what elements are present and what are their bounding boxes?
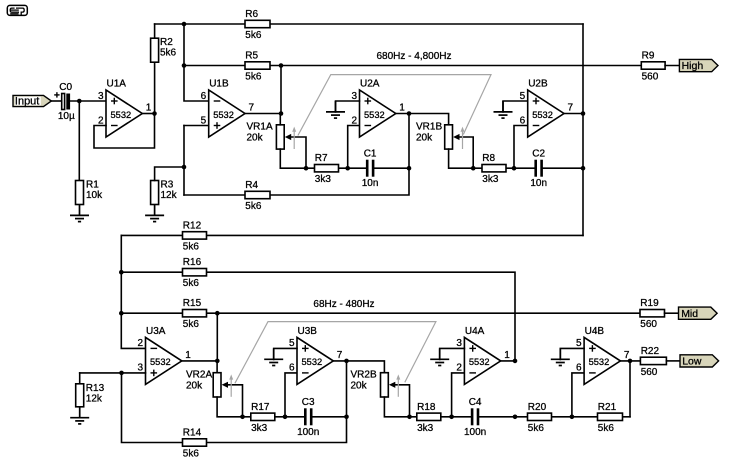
svg-text:R20: R20 bbox=[528, 402, 547, 413]
VR2A wiper arrow bbox=[222, 382, 243, 417]
junction R3 junction bbox=[182, 165, 187, 170]
svg-text:3k3: 3k3 bbox=[315, 174, 332, 185]
svg-text:R6: R6 bbox=[245, 9, 258, 20]
svg-text:C2: C2 bbox=[532, 149, 545, 160]
junction R7/C1/U2A pin2 junction bbox=[345, 166, 350, 171]
wire U1B output to VR1A bbox=[245, 113, 281, 115]
svg-text:5532: 5532 bbox=[469, 357, 490, 367]
resistor R9 560 bbox=[641, 51, 665, 83]
node Low (output tag) bbox=[680, 355, 719, 368]
svg-text:U1B: U1B bbox=[209, 79, 229, 90]
svg-text:C4: C4 bbox=[469, 397, 482, 408]
ground below R1 bbox=[70, 205, 89, 222]
svg-text:R2: R2 bbox=[160, 37, 173, 48]
wire U3B output to VR2B bbox=[333, 361, 384, 373]
svg-text:3: 3 bbox=[137, 363, 143, 374]
wire R2 top to HF feedback rail bbox=[154, 24, 156, 38]
potentiometer VR1B 20k bbox=[416, 122, 453, 150]
svg-text:5532: 5532 bbox=[589, 357, 610, 367]
wire U4A output bbox=[501, 360, 515, 362]
svg-text:6: 6 bbox=[201, 91, 207, 102]
svg-text:5532: 5532 bbox=[364, 110, 385, 120]
wire C2 right to U2B output vertical bbox=[543, 167, 583, 169]
junction R18/C4/U4A pin2 junction bbox=[449, 415, 454, 420]
VR2A gang arrow (gray) bbox=[229, 374, 233, 396]
svg-text:C3: C3 bbox=[302, 397, 315, 408]
svg-text:R7: R7 bbox=[315, 153, 328, 164]
VR1B wiper arrow bbox=[453, 134, 473, 168]
wire C0 to U1A pin 3 bbox=[70, 100, 106, 102]
wire R5 node down to U1B output node bbox=[280, 66, 282, 114]
wire HF feedback rail (U2B out net, top) bbox=[155, 23, 583, 25]
svg-text:5k6: 5k6 bbox=[528, 423, 545, 434]
potentiometer VR1A 20k bbox=[247, 122, 285, 150]
capacitor C0 10µ (electrolytic) bbox=[54, 82, 75, 122]
wire U4A pin2 vertical bbox=[452, 373, 465, 417]
wire Mid output rail bbox=[121, 312, 640, 314]
VR2B wiper arrow bbox=[389, 382, 410, 417]
svg-text:VR1A: VR1A bbox=[247, 122, 273, 133]
svg-text:5k6: 5k6 bbox=[245, 30, 262, 41]
wire U1B inverting vertical bbox=[184, 24, 209, 101]
svg-text:5k6: 5k6 bbox=[160, 48, 177, 59]
svg-text:5: 5 bbox=[289, 338, 295, 349]
ground at U4B pin 5 bbox=[551, 348, 570, 365]
svg-text:1: 1 bbox=[399, 103, 405, 114]
svg-text:2: 2 bbox=[137, 338, 143, 349]
svg-text:3: 3 bbox=[351, 91, 357, 102]
junction VR1A wiper junction bbox=[304, 166, 309, 171]
svg-text:U3A: U3A bbox=[146, 326, 166, 337]
svg-text:1: 1 bbox=[185, 350, 191, 361]
wire U2A output to VR1B bbox=[396, 114, 449, 125]
svg-text:20k: 20k bbox=[351, 380, 368, 391]
wire U1B pin5 vertical bbox=[184, 125, 209, 127]
ground below R3 bbox=[145, 205, 164, 222]
wire R21 right up to U4B output bbox=[629, 361, 631, 417]
capacitor C1 10n bbox=[362, 149, 379, 190]
junction U4A output node bbox=[513, 359, 518, 364]
wire R19 to Mid tag bbox=[665, 312, 679, 314]
svg-text:10k: 10k bbox=[86, 190, 103, 201]
op-amp U3B 5532 bbox=[289, 326, 343, 385]
resistor R1 10k bbox=[76, 180, 104, 205]
junction R5 right / VR1A top branch bbox=[279, 63, 284, 68]
svg-text:2: 2 bbox=[98, 115, 104, 126]
resistor R3 12k bbox=[151, 180, 178, 205]
junction R5 left bbox=[182, 63, 187, 68]
resistor R7 3k3 bbox=[315, 153, 339, 185]
VR1B gang arrow (gray) bbox=[461, 127, 465, 149]
resistor R20 5k6 bbox=[528, 402, 552, 434]
svg-text:R13: R13 bbox=[86, 383, 105, 394]
junction C1 right junction bbox=[407, 166, 412, 171]
junction R17/C3/U3B pin6 junction bbox=[283, 415, 288, 420]
svg-text:68Hz - 480Hz: 68Hz - 480Hz bbox=[313, 299, 374, 310]
potentiometer VR2B 20k bbox=[351, 369, 389, 397]
svg-text:U3B: U3B bbox=[298, 326, 318, 337]
wire R14 net (U3A pin3 to U3B out) bbox=[122, 373, 347, 443]
wire U1A output bbox=[142, 113, 154, 115]
svg-text:5k6: 5k6 bbox=[183, 241, 200, 252]
svg-text:3: 3 bbox=[456, 338, 462, 349]
svg-text:R4: R4 bbox=[245, 180, 258, 191]
potentiometer VR2A 20k bbox=[186, 369, 221, 397]
svg-text:3: 3 bbox=[98, 91, 104, 102]
resistor R13 12k bbox=[76, 383, 105, 407]
svg-text:R5: R5 bbox=[245, 51, 258, 62]
resistor R5 5k6 bbox=[245, 51, 270, 83]
svg-text:R9: R9 bbox=[642, 51, 655, 62]
svg-text:5k6: 5k6 bbox=[183, 278, 200, 289]
resistor R16 5k6 bbox=[183, 257, 207, 289]
svg-text:5k6: 5k6 bbox=[183, 319, 200, 330]
svg-text:Mid: Mid bbox=[681, 308, 698, 320]
junction U3A pin3 / R13 / R14 junction bbox=[119, 371, 124, 376]
capacitor C3 100n bbox=[297, 397, 319, 438]
resistor R4 5k6 bbox=[245, 180, 270, 212]
svg-text:5k6: 5k6 bbox=[245, 72, 262, 83]
svg-text:20k: 20k bbox=[416, 133, 433, 144]
junction U2B output node bbox=[581, 111, 586, 116]
resistor R14 5k6 bbox=[183, 428, 207, 460]
ground at U3B pin 5 bbox=[264, 348, 283, 365]
capacitor C2 10n bbox=[530, 149, 547, 190]
svg-text:R17: R17 bbox=[251, 402, 270, 413]
ESP logo bbox=[7, 5, 27, 15]
node Input (input tag) bbox=[13, 95, 51, 107]
svg-text:5532: 5532 bbox=[213, 110, 234, 120]
svg-text:100n: 100n bbox=[297, 427, 319, 438]
wire U3B output node down bbox=[346, 361, 348, 417]
svg-text:6: 6 bbox=[289, 363, 295, 374]
wire VR1A bottom to C1 branch bbox=[280, 149, 366, 168]
svg-text:R21: R21 bbox=[598, 402, 617, 413]
wire U3A inverting vertical bbox=[121, 235, 145, 348]
svg-text:R19: R19 bbox=[640, 298, 659, 309]
op-amp U1A 5532 bbox=[98, 79, 152, 138]
wire R3 top to U1B pin5 net bbox=[155, 167, 184, 181]
svg-text:R3: R3 bbox=[161, 180, 174, 191]
svg-text:High: High bbox=[682, 60, 704, 72]
wire U2B output vertical to LF section bbox=[582, 24, 584, 235]
wire R13 top bbox=[79, 373, 81, 384]
junction R15 right / VR2A top branch bbox=[215, 311, 220, 316]
svg-text:5532: 5532 bbox=[111, 110, 132, 120]
wire High output rail bbox=[184, 65, 641, 67]
junction VR1B wiper junction bbox=[471, 166, 476, 171]
op-amp U2B 5532 bbox=[520, 79, 574, 138]
svg-text:680Hz - 4,800Hz: 680Hz - 4,800Hz bbox=[376, 51, 451, 62]
svg-text:12k: 12k bbox=[86, 393, 103, 404]
wire R4 net (U1B pin5 to U2A out) bbox=[184, 114, 409, 196]
node Mid (output tag) bbox=[679, 307, 718, 320]
svg-text:U4A: U4A bbox=[465, 326, 485, 337]
resistor R6 5k6 bbox=[245, 9, 270, 41]
svg-text:R8: R8 bbox=[482, 153, 495, 164]
svg-text:100n: 100n bbox=[464, 427, 486, 438]
svg-text:6: 6 bbox=[576, 363, 582, 374]
svg-text:3k3: 3k3 bbox=[417, 423, 434, 434]
wire U2A pin2 vertical bbox=[348, 126, 360, 169]
wire LF input rail (R12 net) bbox=[121, 234, 583, 236]
svg-text:U2B: U2B bbox=[528, 79, 548, 90]
ground at U2A pin 3 bbox=[326, 101, 345, 118]
junction U1A output node bbox=[152, 111, 157, 116]
junction C4 right junction bbox=[513, 415, 518, 420]
wire R22 to Low tag bbox=[666, 360, 680, 362]
wire U2B pin5 to ground bbox=[503, 101, 528, 112]
svg-text:2: 2 bbox=[351, 115, 357, 126]
wire VR1B bottom to C2 branch bbox=[449, 149, 534, 168]
junction U1B output node bbox=[279, 111, 284, 116]
wire R16 net (U4A out feedback) bbox=[121, 272, 515, 361]
svg-text:20k: 20k bbox=[247, 133, 264, 144]
wire U3B pin6 vertical bbox=[285, 373, 297, 417]
wire input node down to R1 bbox=[78, 101, 80, 181]
wire U4B pin6 vertical bbox=[572, 373, 584, 417]
svg-text:5k6: 5k6 bbox=[245, 201, 262, 212]
svg-text:5532: 5532 bbox=[302, 357, 323, 367]
op-amp U1B 5532 bbox=[201, 79, 255, 138]
gang link VR1A-VR1B (gray) bbox=[298, 75, 491, 136]
resistor R15 5k6 bbox=[183, 298, 207, 330]
svg-text:VR2B: VR2B bbox=[351, 369, 377, 380]
svg-text:1: 1 bbox=[146, 103, 152, 114]
svg-text:5532: 5532 bbox=[532, 110, 553, 120]
svg-text:560: 560 bbox=[642, 72, 659, 83]
wire VR2A bottom to C3 branch bbox=[217, 397, 304, 417]
junction R8/C2/U2B pin6 junction bbox=[512, 166, 517, 171]
junction VR2A wiper junction bbox=[240, 415, 245, 420]
VR2B gang arrow (gray) bbox=[396, 374, 400, 396]
wire VR2B bottom to C4 branch bbox=[384, 397, 470, 417]
capacitor C4 100n bbox=[464, 397, 486, 438]
svg-text:560: 560 bbox=[640, 319, 657, 330]
junction C2 right junction bbox=[581, 166, 586, 171]
svg-text:R15: R15 bbox=[183, 298, 202, 309]
VR1A gang arrow (gray) bbox=[292, 127, 296, 149]
svg-text:7: 7 bbox=[249, 103, 255, 114]
wire U3A output bbox=[182, 360, 218, 362]
wire VR2A top bbox=[216, 361, 218, 373]
resistor R17 3k3 bbox=[251, 402, 275, 434]
svg-text:R12: R12 bbox=[183, 220, 202, 231]
wire U1A pin2 feedback loop bbox=[94, 114, 155, 149]
svg-text:7: 7 bbox=[568, 103, 574, 114]
svg-text:560: 560 bbox=[641, 367, 658, 378]
junction U4B output node bbox=[628, 359, 633, 364]
resistor R8 3k3 bbox=[482, 153, 506, 185]
junction U2A output node bbox=[407, 111, 412, 116]
wire C1 right to U2A output vertical bbox=[375, 167, 410, 169]
wire VR1A top bbox=[279, 114, 281, 125]
resistor R18 3k3 bbox=[417, 402, 441, 434]
svg-text:U4B: U4B bbox=[585, 326, 605, 337]
svg-text:C1: C1 bbox=[364, 149, 377, 160]
junction R15 left bbox=[119, 311, 124, 316]
svg-text:5532: 5532 bbox=[150, 357, 171, 367]
node High (output tag) bbox=[679, 59, 718, 72]
svg-text:Input: Input bbox=[15, 96, 39, 108]
svg-text:20k: 20k bbox=[186, 380, 203, 391]
svg-text:VR2A: VR2A bbox=[186, 369, 212, 380]
svg-text:Low: Low bbox=[682, 356, 702, 368]
svg-text:5k6: 5k6 bbox=[183, 449, 200, 460]
wire C3 right to U3B output vertical bbox=[313, 416, 347, 418]
svg-text:R14: R14 bbox=[183, 428, 202, 439]
wire U4A pin3 to ground bbox=[440, 348, 465, 359]
svg-text:R22: R22 bbox=[641, 346, 660, 357]
svg-text:3k3: 3k3 bbox=[482, 174, 499, 185]
svg-text:2: 2 bbox=[456, 363, 462, 374]
svg-text:3k3: 3k3 bbox=[251, 423, 268, 434]
svg-text:5: 5 bbox=[576, 338, 582, 349]
VR1A wiper arrow bbox=[285, 134, 306, 168]
wire R9 to High tag bbox=[665, 65, 679, 67]
junction VR2B wiper junction bbox=[407, 415, 412, 420]
wire R15 node down to U3A output node bbox=[216, 313, 218, 361]
svg-text:C0: C0 bbox=[59, 82, 72, 93]
svg-text:12k: 12k bbox=[161, 190, 178, 201]
junction input node bbox=[77, 99, 82, 104]
svg-text:7: 7 bbox=[337, 350, 343, 361]
op-amp U2A 5532 bbox=[351, 79, 405, 138]
svg-text:R18: R18 bbox=[417, 402, 436, 413]
wire U4B output bbox=[620, 360, 640, 362]
op-amp U3A 5532 bbox=[137, 326, 191, 385]
wire U4B pin5 to ground bbox=[560, 348, 584, 359]
svg-text:R16: R16 bbox=[183, 257, 202, 268]
wire U2A pin3 to ground bbox=[336, 101, 360, 112]
wire Input tag to C0 bbox=[51, 100, 61, 102]
resistor R19 560 bbox=[640, 298, 665, 330]
svg-text:5k6: 5k6 bbox=[598, 423, 615, 434]
resistor R12 5k6 bbox=[183, 220, 207, 252]
ground at U4A pin 3 bbox=[430, 348, 449, 365]
ground below R13 bbox=[70, 407, 89, 424]
junction R16 left bbox=[119, 270, 124, 275]
svg-text:10n: 10n bbox=[362, 178, 379, 189]
svg-text:R1: R1 bbox=[86, 180, 99, 191]
svg-text:VR1B: VR1B bbox=[416, 122, 442, 133]
wire U2B output bbox=[564, 113, 583, 115]
ground at U2B pin 5 bbox=[494, 101, 513, 118]
wire C4 right to low rail bbox=[479, 416, 630, 418]
op-amp U4A 5532 bbox=[456, 326, 510, 385]
resistor R2 5k6 bbox=[151, 37, 177, 62]
resistor R21 5k6 bbox=[598, 402, 623, 434]
junction C3 right junction bbox=[344, 415, 349, 420]
junction U3B output node bbox=[344, 359, 349, 364]
svg-text:5: 5 bbox=[520, 91, 526, 102]
wire U2B pin6 vertical bbox=[514, 126, 528, 169]
junction R6 rail / U1B inverting branch bbox=[182, 22, 187, 27]
op-amp U4B 5532 bbox=[576, 326, 630, 385]
junction U3A output node bbox=[215, 359, 220, 364]
svg-text:10µ: 10µ bbox=[58, 111, 75, 122]
svg-text:10n: 10n bbox=[530, 178, 547, 189]
svg-text:U1A: U1A bbox=[107, 79, 127, 90]
svg-text:U2A: U2A bbox=[360, 79, 380, 90]
junction R20/R21/U4B pin6 junction bbox=[570, 415, 575, 420]
svg-text:5: 5 bbox=[201, 115, 207, 126]
wire U3A pin3 net bbox=[80, 372, 146, 374]
svg-text:6: 6 bbox=[520, 115, 526, 126]
gang link VR2A-VR2B (gray) bbox=[235, 322, 436, 384]
wire U1A output node up to R2 bbox=[154, 62, 156, 113]
resistor R22 560 bbox=[640, 346, 666, 378]
wire U3B pin5 to ground bbox=[274, 348, 297, 359]
svg-text:1: 1 bbox=[504, 350, 510, 361]
